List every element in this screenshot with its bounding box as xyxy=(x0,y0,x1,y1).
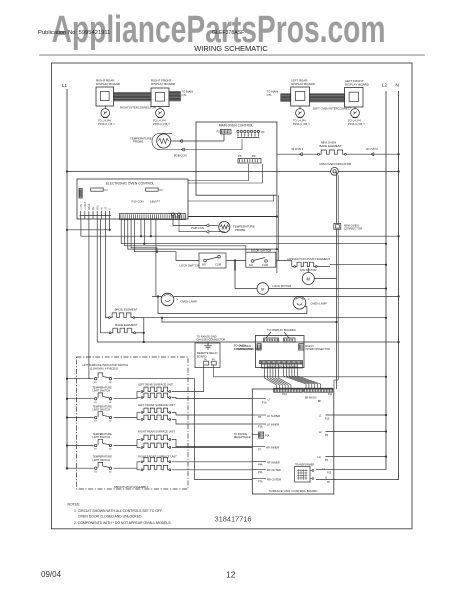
label PGB CON lower xyxy=(191,226,204,230)
svg-text:NOTES:: NOTES: xyxy=(68,503,81,507)
wire comb drop join bus A xyxy=(140,218,142,237)
svg-text:W OVN 1: W OVN 1 xyxy=(292,147,304,151)
wire comb drop join bus A2 xyxy=(150,218,152,237)
svg-text:P14: P14 xyxy=(265,435,270,438)
svg-text:BAKE ELEMENT: BAKE ELEMENT xyxy=(320,144,342,148)
smoothtop assembly dashed box xyxy=(77,357,189,489)
display board: left front xyxy=(345,88,364,108)
footer page number xyxy=(226,570,236,580)
svg-text:K2: K2 xyxy=(160,188,164,192)
wire RF unit to RF OUTER pin xyxy=(172,469,253,471)
oven lamp DS2 xyxy=(293,296,327,309)
wire bus E element branch xyxy=(161,317,338,324)
label to range receptacle xyxy=(234,432,259,439)
label right front display board xyxy=(151,79,176,87)
header: model number text xyxy=(212,30,244,36)
wire LF unit to LF INNER pin xyxy=(172,420,253,425)
svg-text:P9: P9 xyxy=(252,154,256,158)
svg-text:RIGHT INTERCONNECTOR: RIGHT INTERCONNECTOR xyxy=(120,106,156,110)
surface board left pin LF INNER xyxy=(252,423,279,429)
svg-text:(1 SHOWN, 4 PIECES): (1 SHOWN, 4 PIECES) xyxy=(90,366,118,370)
wire L1 rail xyxy=(66,89,68,470)
wire drop to lamp 1 xyxy=(155,218,157,296)
label P10 CON xyxy=(132,200,161,204)
main oven control board U1 xyxy=(196,122,277,195)
svg-text:ELECTRONIC OVEN CONTROL: ELECTRONIC OVEN CONTROL xyxy=(106,182,155,186)
lock motor M2 xyxy=(257,283,291,295)
svg-text:BK: BK xyxy=(318,401,322,403)
node L2 label xyxy=(382,83,388,88)
surface unit left front xyxy=(138,403,175,420)
surface board left pin RF OUTER xyxy=(252,468,280,474)
wire main control to bake element xyxy=(277,153,318,155)
document number xyxy=(215,515,252,524)
display board: right rear xyxy=(96,87,114,106)
wire mini connector down to surface board xyxy=(334,229,338,389)
door switch S2 xyxy=(246,249,276,268)
label hot surface indicator switch xyxy=(83,363,129,370)
connector W OVN 2 xyxy=(366,147,378,156)
watermark xyxy=(52,9,386,51)
wire main control corner drop xyxy=(277,195,278,273)
svg-text:NO: NO xyxy=(202,263,206,267)
svg-text:HI: HI xyxy=(100,207,103,210)
label to main oven control xyxy=(182,90,194,97)
svg-text:P12: P12 xyxy=(283,393,288,396)
svg-text:LOCK SWITCH: LOCK SWITCH xyxy=(180,264,199,268)
convection assist element xyxy=(287,257,330,268)
wire switch3 to LF unit xyxy=(114,413,140,420)
top connector wire color labels xyxy=(305,397,322,403)
svg-text:2. COMPONENTS WITH * DO NOT: 2. COMPONENTS WITH * DO NOT APPEAR ON AL… xyxy=(74,521,171,525)
footer date xyxy=(41,570,62,579)
svg-text:MINI OVEN INDICATOR: MINI OVEN INDICATOR xyxy=(320,162,352,166)
svg-text:P7A: P7A xyxy=(258,480,263,483)
surface board right pin L3 xyxy=(318,455,388,462)
wire L1 to EOC pin xyxy=(66,220,111,231)
wire EOC P1 to probe top xyxy=(173,216,218,228)
label left rear display board xyxy=(291,79,316,87)
surface unit right front xyxy=(138,455,177,471)
svg-text:OVEN LAMP: OVEN LAMP xyxy=(181,300,197,304)
display board: left rear xyxy=(291,87,310,106)
wire bus A pin to N xyxy=(81,220,400,238)
wire LF unit to LF SUPER pin xyxy=(172,413,253,416)
svg-text:P3A: P3A xyxy=(258,426,263,429)
wire lock to door switch xyxy=(226,260,246,262)
mini oven bake element xyxy=(318,140,347,155)
svg-text:RR OUTER: RR OUTER xyxy=(267,478,281,482)
svg-text:LIMIT SWITCH: LIMIT SWITCH xyxy=(93,435,111,439)
wire lamp line to N xyxy=(174,295,400,297)
ribbon stub to main oven control xyxy=(169,92,181,102)
header: publication number text xyxy=(38,30,110,36)
label elect interconnector xyxy=(306,344,331,351)
svg-text:L1: L1 xyxy=(319,414,322,418)
wire broil+bake join xyxy=(135,318,145,344)
wire EOC to main control P5 xyxy=(188,164,249,181)
wire lamp2 bottom loop to bus xyxy=(157,295,307,313)
svg-text:BR: BR xyxy=(92,206,95,210)
svg-text:P13: P13 xyxy=(327,472,332,475)
wire drop to main corner vertical xyxy=(128,218,278,250)
EOC P1 connector circles xyxy=(171,213,182,217)
transformer T1 xyxy=(295,464,315,482)
wire RR unit lower row xyxy=(172,447,253,449)
mini oven indicator lamp xyxy=(320,162,352,175)
svg-text:L1 OUT: L1 OUT xyxy=(84,201,87,210)
EOC left edge connector xyxy=(79,189,82,199)
wire probe loop to P4 xyxy=(172,139,242,151)
svg-text:RECEPTACLE: RECEPTACLE xyxy=(234,435,251,439)
svg-text:P5: P5 xyxy=(238,154,242,158)
wire bundle interface board to surface board xyxy=(284,364,321,389)
surface board left pin LF SUPER xyxy=(252,414,280,419)
svg-text:OVEN INTERFACE BOARD: OVEN INTERFACE BOARD xyxy=(266,364,298,368)
display board: right front xyxy=(151,88,169,107)
connector P2 on main oven control xyxy=(217,130,232,135)
svg-text:L2: L2 xyxy=(319,430,322,434)
trim pot under right front display xyxy=(156,107,165,118)
wire switch2 to LR unit xyxy=(114,392,140,399)
ribbon stub from main oven control (left) xyxy=(281,94,291,102)
wire probe bottom loop xyxy=(179,216,224,234)
svg-text:L1: L1 xyxy=(62,83,68,88)
wire transformer to pins xyxy=(310,470,314,480)
svg-text:L2: L2 xyxy=(382,83,388,88)
svg-text:CTL: CTL xyxy=(267,93,273,97)
svg-text:SURFACE UNIT CONTROL BOARD: SURFACE UNIT CONTROL BOARD xyxy=(269,489,319,493)
wire EOC to main control P9 xyxy=(188,164,263,183)
wire drop to lock switch feed xyxy=(134,218,199,260)
label mini oven connector (left of interface) xyxy=(236,344,253,351)
connector P5-P9 on main oven control xyxy=(238,154,261,163)
surface board top connector P12 xyxy=(274,388,303,396)
wire EOC to main control lower xyxy=(188,195,274,201)
svg-text:LEFT FRONT SURFACE UNIT: LEFT FRONT SURFACE UNIT xyxy=(138,403,175,407)
svg-text:P4: P4 xyxy=(261,130,265,134)
svg-text:N: N xyxy=(396,83,399,88)
wire N rail xyxy=(398,91,400,480)
label to display boards xyxy=(266,328,296,338)
wire switch4 to RR unit xyxy=(114,440,140,448)
svg-text:LIMIT SWITCH: LIMIT SWITCH xyxy=(93,408,111,412)
label left oven interconnect xyxy=(313,106,352,110)
svg-text:DISPLAY BOARD: DISPLAY BOARD xyxy=(345,83,370,87)
oven lamp DS1 xyxy=(152,293,197,306)
svg-text:OVEN DOOR CLOSED AND UNLOCKED.: OVEN DOOR CLOSED AND UNLOCKED. xyxy=(78,515,142,519)
label to oven interconnector xyxy=(234,344,260,351)
svg-text:PROBE: PROBE xyxy=(235,228,245,232)
surface board right pin L1 to L2 rail xyxy=(319,414,387,421)
svg-text:DISPLAY BOARD: DISPLAY BOARD xyxy=(96,82,121,86)
hot surface indicator switch S3 xyxy=(66,373,113,384)
mini oven connector J1 xyxy=(334,223,362,230)
wire drop to bake element xyxy=(101,219,110,333)
bake element xyxy=(109,323,137,334)
label under left front pot xyxy=(348,119,365,127)
EOC left pin group xyxy=(80,201,112,219)
svg-text:PINS C,3,B,Y: PINS C,3,B,Y xyxy=(293,122,310,126)
svg-text:PINS C,2,B,Y: PINS C,2,B,Y xyxy=(153,122,170,126)
broil element xyxy=(109,308,138,319)
svg-text:SMOOTHTOP ASSEMBLY: SMOOTHTOP ASSEMBLY xyxy=(114,485,149,489)
surface unit right rear xyxy=(138,430,175,449)
svg-text:GLEF378ASF: GLEF378ASF xyxy=(212,30,244,36)
label under right front pot xyxy=(153,119,170,127)
svg-text:LO: LO xyxy=(105,207,108,210)
svg-text:09/04: 09/04 xyxy=(41,570,62,579)
svg-text:COM: COM xyxy=(215,263,221,267)
svg-text:DISPLAY BOARD: DISPLAY BOARD xyxy=(151,82,176,86)
svg-text:L&M P7: L&M P7 xyxy=(150,200,160,204)
label to range ground connector xyxy=(197,335,226,342)
remote relay board U3 xyxy=(195,343,220,368)
svg-text:LIMIT SWITCH: LIMIT SWITCH xyxy=(93,458,111,462)
svg-text:L1 IN: L1 IN xyxy=(80,204,83,210)
wire RR unit to RR INNER pin xyxy=(172,440,253,447)
svg-text:N: N xyxy=(325,476,327,480)
surface board left pin RF INNER xyxy=(252,461,279,467)
wire relay board P4 to L2 xyxy=(214,365,387,378)
svg-text:PGB CON: PGB CON xyxy=(191,226,204,230)
svg-text:MDL: MDL xyxy=(96,204,99,210)
svg-text:CONNECTOR: CONNECTOR xyxy=(344,227,362,231)
wire indicator to mini connector xyxy=(337,172,339,224)
wire bake element to N rail xyxy=(346,153,399,155)
surface board left pin RR INNER xyxy=(252,446,279,452)
trim pot under left rear display xyxy=(296,106,305,118)
relay K2 on EOC xyxy=(146,188,164,192)
svg-text:PROBE: PROBE xyxy=(133,140,143,144)
connector W OVN 1 xyxy=(292,147,304,156)
junction T to lock motor xyxy=(234,259,236,270)
svg-text:TO DISPLAY BOARDS: TO DISPLAY BOARDS xyxy=(267,328,296,332)
connector P4 pin row on main oven control xyxy=(237,130,265,138)
svg-text:LIMIT SWITCH: LIMIT SWITCH xyxy=(93,389,111,393)
svg-text:COM: COM xyxy=(262,263,268,267)
svg-text:L2: L2 xyxy=(322,467,325,471)
wire bus EOC to main control corner xyxy=(188,215,278,217)
node N label xyxy=(396,83,399,88)
svg-text:DISPLAY BOARD: DISPLAY BOARD xyxy=(291,82,316,86)
wire L2 rail xyxy=(385,91,387,470)
wire interface board left drops xyxy=(265,364,292,389)
svg-text:K1: K1 xyxy=(105,188,109,192)
wire elements to L2/N bus xyxy=(144,317,387,319)
svg-text:RF OUTER: RF OUTER xyxy=(267,468,281,472)
wire switch5 to RF unit xyxy=(114,462,140,470)
wire LR unit to relay board xyxy=(172,365,204,392)
wire drop to hot surface switch xyxy=(88,219,90,379)
svg-text:BROIL ELEMENT: BROIL ELEMENT xyxy=(115,308,138,312)
svg-text:RF INNER: RF INNER xyxy=(267,461,280,465)
surface board left connector P14 xyxy=(259,432,270,438)
surface board left pin LT xyxy=(252,397,270,404)
svg-text:LF INNER: LF INNER xyxy=(267,423,279,427)
header rule xyxy=(39,54,425,56)
wire probe to P2 xyxy=(171,134,224,143)
wire RF unit to RF INNER pin xyxy=(172,461,253,463)
svg-text:LF SUPER: LF SUPER xyxy=(267,414,280,418)
svg-text:P1A: P1A xyxy=(262,402,267,405)
surface board left pin RR OUTER xyxy=(252,478,281,484)
ground symbol xyxy=(204,342,211,350)
label PGB CON xyxy=(174,153,187,157)
svg-text:LEFT REAR SURFACE UNIT: LEFT REAR SURFACE UNIT xyxy=(138,383,174,387)
wire comb drop join bus C xyxy=(143,218,145,245)
svg-text:REMOTE RELAY: REMOTE RELAY xyxy=(197,351,218,355)
temperature probe RT1 xyxy=(130,133,172,149)
svg-text:M: M xyxy=(261,287,264,292)
svg-text:PINS C,1,B,Y: PINS C,1,B,Y xyxy=(98,122,115,126)
wire drop secondary feed xyxy=(131,218,158,253)
oven interface board U4 xyxy=(256,336,305,369)
svg-text:LT: LT xyxy=(268,397,271,401)
svg-text:318417716: 318417716 xyxy=(215,515,252,524)
trim pot under left front display xyxy=(351,107,360,118)
wire drop to door switch feed xyxy=(125,218,246,252)
svg-text:PGB CON: PGB CON xyxy=(174,153,187,157)
ribbon cable: left oven interconnect xyxy=(310,94,345,102)
label right oven interconnect xyxy=(120,106,156,110)
surface board right pin L2 to L2 rail xyxy=(319,430,387,437)
svg-text:12: 12 xyxy=(226,570,236,580)
fan motor M1 xyxy=(300,268,317,285)
svg-text:RIGHT REAR SURFACE UNIT: RIGHT REAR SURFACE UNIT xyxy=(138,430,175,434)
label under left rear pot xyxy=(293,119,310,127)
temperature limit switch left front xyxy=(66,404,113,422)
svg-text:P4A: P4A xyxy=(258,464,263,467)
svg-text:PINS C,4,B,Y: PINS C,4,B,Y xyxy=(348,122,365,126)
electronic oven control board U2 xyxy=(77,179,188,219)
svg-text:WIRING SCHEMATIC: WIRING SCHEMATIC xyxy=(194,44,268,53)
wire N rail bottom to board xyxy=(316,476,399,485)
svg-text:NO: NO xyxy=(249,263,253,267)
wire drop to broil element xyxy=(105,219,108,318)
temperature probe RT2 xyxy=(219,221,255,232)
svg-text:OVEN LAMP: OVEN LAMP xyxy=(311,302,327,306)
svg-text:LOCK MOTOR: LOCK MOTOR xyxy=(273,284,292,288)
svg-text:P11: P11 xyxy=(328,393,333,396)
svg-text:M: M xyxy=(307,277,311,282)
relay K1 on EOC xyxy=(91,188,109,192)
svg-text:MAIN OVEN CONTROL: MAIN OVEN CONTROL xyxy=(219,124,254,128)
notes text xyxy=(68,503,172,526)
wire fan motor right xyxy=(314,278,336,280)
svg-text:P15: P15 xyxy=(325,418,330,421)
svg-text:L3: L3 xyxy=(318,455,321,459)
ribbon cable: right oven interconnect xyxy=(114,93,152,102)
svg-text:CHASSIS CONNECTOR: CHASSIS CONNECTOR xyxy=(197,338,226,342)
surface board top connector P11 xyxy=(304,388,333,396)
svg-text:BAKE: BAKE xyxy=(88,203,91,210)
trim pot under right rear display xyxy=(101,106,110,118)
svg-text:CONVECTION ASSIST ELEMENT: CONVECTION ASSIST ELEMENT xyxy=(287,257,330,261)
temperature limit switch right rear xyxy=(66,432,113,451)
EOC bottom pin comb xyxy=(120,214,186,220)
title: WIRING SCHEMATIC xyxy=(194,44,268,53)
svg-text:CTL: CTL xyxy=(182,93,188,97)
svg-text:P2A: P2A xyxy=(258,471,263,474)
wire convection element to L2 xyxy=(317,264,387,267)
svg-text:RR INNER: RR INNER xyxy=(266,446,279,450)
label under right rear pot xyxy=(98,119,115,127)
lock switch S1 xyxy=(180,253,227,268)
surface unit left rear xyxy=(138,383,174,399)
svg-text:BAKE ELEMENT: BAKE ELEMENT xyxy=(115,323,137,327)
wire drop to bus y342 xyxy=(97,219,400,343)
svg-text:P2: P2 xyxy=(217,130,221,134)
wire L2 rail bottom to board xyxy=(316,467,386,475)
label right rear display board xyxy=(96,79,121,87)
label left front display board xyxy=(345,79,370,87)
svg-text:CONNECTOR: CONNECTOR xyxy=(236,347,253,351)
svg-text:INTERCONNECTOR: INTERCONNECTOR xyxy=(306,347,331,351)
wire hot surface switch to RR OUTER pin xyxy=(114,379,253,480)
node L1 label xyxy=(62,83,68,88)
svg-text:1. CIRCUIT SHOWN WITH ALL CON: 1. CIRCUIT SHOWN WITH ALL CONTROLS SET T… xyxy=(74,509,163,513)
svg-text:P10 CON: P10 CON xyxy=(132,200,144,204)
schematic border frame xyxy=(52,63,413,529)
svg-text:BR WH BU: BR WH BU xyxy=(305,397,317,399)
svg-text:W OVN 2: W OVN 2 xyxy=(366,147,378,151)
temperature limit switch left rear xyxy=(66,386,113,404)
temperature limit switch right front xyxy=(66,455,113,474)
wire lock motor leads xyxy=(235,271,387,290)
svg-text:Publication No: 5995421911: Publication No: 5995421911 xyxy=(38,30,110,36)
wire L1 to N indicator line xyxy=(66,170,400,172)
wire LR unit to LT pin xyxy=(172,398,253,399)
wire door switch to convection element xyxy=(276,261,294,267)
label to main oven control (left side) xyxy=(267,90,279,97)
surface unit control board U5 xyxy=(252,389,333,494)
label smoothtop assembly xyxy=(114,485,149,489)
wire bus C to L2 xyxy=(121,218,387,245)
svg-text:BOARD: BOARD xyxy=(197,354,207,358)
